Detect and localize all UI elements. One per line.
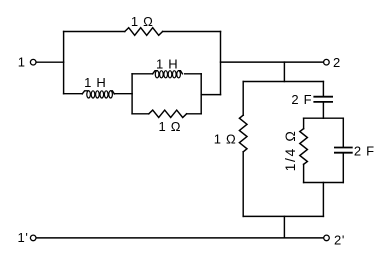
wire middle branch left (64, 93, 83, 95)
wire right vertical of top section (220, 32, 222, 95)
bottom rail wire (37, 237, 324, 239)
wire middle branch to box1 (114, 93, 132, 95)
wire horizontal splitter (243, 81, 323, 83)
svg-text:1 Ω: 1 Ω (131, 14, 154, 29)
terminal 1prime (30, 235, 36, 241)
resistor R3 1ohm vertical (239, 115, 247, 152)
box1 top wire right (185, 73, 202, 75)
box2 bottom (304, 182, 344, 184)
resistor R top 1ohm (125, 28, 163, 36)
svg-text:2: 2 (333, 55, 341, 70)
inductor L1 1H (82, 91, 114, 94)
box1 bottom wire right (187, 113, 202, 115)
wire junction down from output wire (283, 62, 285, 81)
wire left vertical node (63, 32, 65, 94)
capacitor C2 2F in box (335, 147, 352, 149)
wire top branch right (163, 31, 221, 33)
terminal 2 (324, 59, 330, 65)
box2 left upper (303, 118, 305, 129)
box1 right side (200, 74, 202, 114)
resistor R4 1/4 ohm vertical (300, 129, 308, 165)
wire box1 output to right vertical (201, 94, 220, 96)
svg-text:1': 1' (17, 230, 28, 245)
box2 top (304, 117, 344, 119)
box1 left side (131, 74, 133, 114)
wire series cap to box2 (322, 103, 324, 119)
wire collector down to bottom rail (283, 216, 285, 237)
svg-text:2 F: 2 F (354, 143, 375, 158)
svg-text:1 Ω: 1 Ω (158, 119, 181, 134)
resistor R2 1ohm in box (149, 110, 187, 117)
wire terminal1 to left vertical (37, 61, 64, 63)
svg-text:2 F: 2 F (291, 92, 312, 107)
terminal 1 (30, 59, 36, 65)
svg-text:1 Ω: 1 Ω (214, 132, 237, 147)
wire top branch left (64, 31, 125, 33)
box2 right lower (342, 153, 344, 182)
box1 bottom wire left (132, 113, 149, 115)
wire right branch to series cap (322, 82, 324, 97)
box2 right upper (342, 118, 344, 147)
inductor L2 1H in box (153, 71, 183, 74)
box1 top wire left (132, 73, 153, 75)
wire left shunt branch upper (242, 82, 244, 116)
wire box2 to collector (322, 183, 324, 217)
capacitor C1 2F series (314, 96, 332, 98)
svg-text:1: 1 (18, 55, 26, 70)
wire collector horizontal (243, 215, 323, 217)
terminal 2prime (324, 235, 330, 241)
wire output node to terminal 2 (221, 61, 324, 63)
svg-text:1/4 Ω: 1/4 Ω (282, 130, 298, 172)
svg-text:2': 2' (334, 233, 345, 248)
box2 left lower (303, 164, 305, 182)
svg-text:1 H: 1 H (156, 56, 178, 71)
svg-text:1 H: 1 H (84, 75, 106, 90)
wire left shunt branch lower (242, 152, 244, 217)
